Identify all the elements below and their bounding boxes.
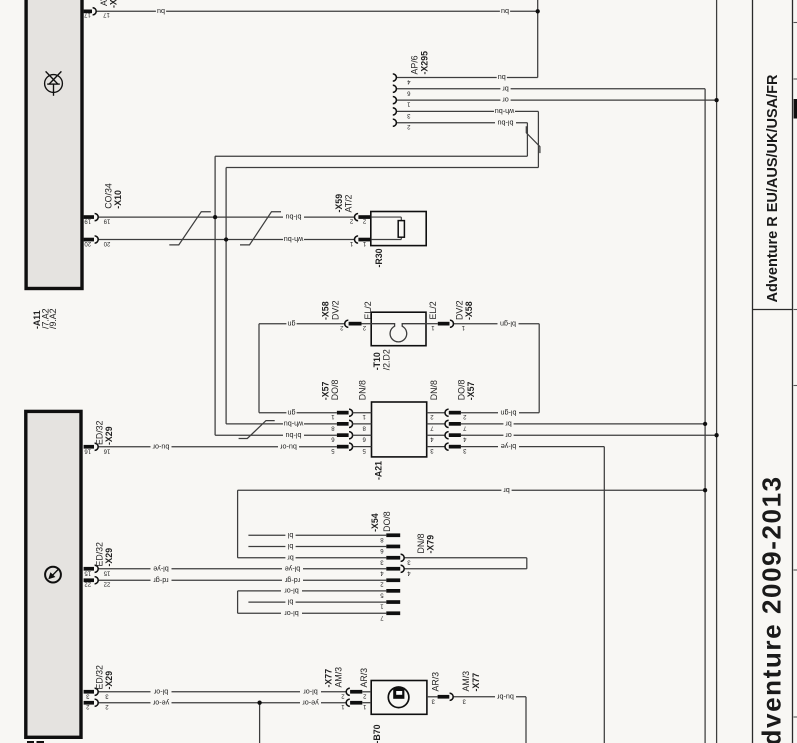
svg-text:br: br bbox=[502, 84, 509, 93]
svg-text:-X29: -X29 bbox=[104, 426, 114, 445]
svg-text:-R30: -R30 bbox=[374, 248, 384, 267]
svg-text:gn: gn bbox=[288, 408, 296, 417]
svg-text:bl-gn: bl-gn bbox=[500, 319, 516, 328]
svg-text:bu: bu bbox=[157, 7, 165, 16]
svg-text:AV/18: AV/18 bbox=[99, 0, 109, 6]
svg-text:16: 16 bbox=[84, 447, 91, 453]
svg-text:AP/6: AP/6 bbox=[409, 55, 419, 74]
svg-text:ED/32: ED/32 bbox=[95, 542, 105, 567]
svg-text:bu-or: bu-or bbox=[152, 442, 169, 451]
svg-text:-X77: -X77 bbox=[324, 669, 334, 688]
svg-text:bl-or: bl-or bbox=[284, 587, 299, 596]
svg-text:-X54: -X54 bbox=[370, 513, 380, 532]
svg-text:or: or bbox=[502, 96, 509, 105]
svg-text:DV/2: DV/2 bbox=[455, 300, 465, 320]
svg-text:bl-ye: bl-ye bbox=[153, 564, 169, 573]
svg-text:-X59: -X59 bbox=[334, 194, 344, 213]
svg-text:br: br bbox=[505, 420, 512, 429]
svg-text:-X295: -X295 bbox=[419, 51, 429, 75]
svg-text:AT/2: AT/2 bbox=[344, 194, 354, 212]
svg-text:-A21: -A21 bbox=[374, 461, 384, 480]
svg-text:DO/8: DO/8 bbox=[456, 380, 466, 401]
svg-text:22: 22 bbox=[103, 581, 110, 587]
svg-text:-X57: -X57 bbox=[466, 382, 476, 401]
svg-text:bu-or: bu-or bbox=[280, 442, 297, 451]
svg-text:15: 15 bbox=[103, 569, 110, 575]
svg-text:bl: bl bbox=[287, 542, 293, 551]
svg-text:bl-bu: bl-bu bbox=[286, 431, 302, 440]
svg-text:19: 19 bbox=[103, 218, 110, 224]
svg-text:bu: bu bbox=[498, 73, 506, 82]
svg-text:bl-ye: bl-ye bbox=[285, 564, 301, 573]
svg-text:/9.A2: /9.A2 bbox=[48, 308, 58, 329]
svg-text:16: 16 bbox=[103, 447, 110, 453]
svg-text:wh-bu: wh-bu bbox=[495, 107, 516, 116]
svg-text:EL/2: EL/2 bbox=[428, 301, 438, 319]
svg-text:-X57: -X57 bbox=[320, 382, 330, 401]
svg-text:rd-gr: rd-gr bbox=[153, 576, 169, 585]
svg-text:br: br bbox=[287, 553, 294, 562]
svg-text:ye-or: ye-or bbox=[302, 698, 319, 707]
svg-text:bl-bu: bl-bu bbox=[286, 213, 302, 222]
svg-text:br: br bbox=[503, 486, 510, 495]
svg-text:-B70: -B70 bbox=[372, 724, 382, 743]
svg-text:-T10: -T10 bbox=[372, 352, 382, 370]
svg-text:DV/2: DV/2 bbox=[330, 300, 340, 320]
svg-text:DO/8: DO/8 bbox=[330, 380, 340, 401]
svg-text:bu: bu bbox=[501, 7, 509, 16]
svg-text:-X79: -X79 bbox=[426, 535, 436, 554]
svg-text:bl-or: bl-or bbox=[284, 609, 299, 618]
svg-text:20: 20 bbox=[84, 240, 91, 246]
svg-text:AM/3: AM/3 bbox=[333, 667, 343, 688]
svg-text:ED/32: ED/32 bbox=[95, 665, 105, 690]
svg-text:-X58: -X58 bbox=[321, 301, 331, 320]
svg-text:bl-or: bl-or bbox=[153, 687, 168, 696]
svg-text:-X13: -X13 bbox=[109, 0, 119, 8]
svg-text:bu-br: bu-br bbox=[497, 692, 514, 701]
svg-text:wh-bu: wh-bu bbox=[284, 235, 305, 244]
svg-text:-X29: -X29 bbox=[104, 548, 114, 567]
svg-text:gn: gn bbox=[288, 319, 296, 328]
svg-text:wh-bu: wh-bu bbox=[284, 420, 305, 429]
svg-text:bl-or: bl-or bbox=[303, 687, 318, 696]
svg-text:or: or bbox=[505, 431, 512, 440]
svg-text:bl-ye: bl-ye bbox=[501, 442, 517, 451]
svg-text:DO/8: DO/8 bbox=[382, 511, 392, 532]
svg-text:19: 19 bbox=[84, 218, 91, 224]
svg-text:/2.D2: /2.D2 bbox=[382, 349, 392, 370]
svg-text:AR/3: AR/3 bbox=[430, 672, 440, 692]
svg-text:rd-gr: rd-gr bbox=[284, 576, 300, 585]
svg-text:-X10: -X10 bbox=[113, 190, 123, 209]
svg-text:17: 17 bbox=[103, 11, 110, 17]
svg-text:17: 17 bbox=[84, 11, 91, 17]
svg-text:EL/2: EL/2 bbox=[363, 301, 373, 319]
svg-text:DN/8: DN/8 bbox=[357, 380, 367, 400]
svg-text:22: 22 bbox=[84, 581, 91, 587]
svg-text:-X29: -X29 bbox=[104, 671, 114, 690]
svg-text:bl-bu: bl-bu bbox=[498, 118, 514, 127]
svg-text:ED/32: ED/32 bbox=[95, 420, 105, 445]
svg-text:bl: bl bbox=[287, 598, 293, 607]
svg-text:-X77: -X77 bbox=[471, 673, 481, 692]
svg-text:CO/34: CO/34 bbox=[103, 183, 113, 209]
svg-text:AM/3: AM/3 bbox=[461, 671, 471, 692]
svg-text:20: 20 bbox=[103, 240, 110, 246]
svg-text:AR/3: AR/3 bbox=[359, 668, 369, 688]
svg-text:DN/8: DN/8 bbox=[429, 380, 439, 400]
svg-text:bl-gn: bl-gn bbox=[501, 408, 517, 417]
svg-text:-X58: -X58 bbox=[464, 301, 474, 320]
svg-text:KTM 990 Adventure 2009-2013: KTM 990 Adventure 2009-2013 bbox=[757, 475, 787, 743]
svg-text:Adventure R EU/AUS/UK/USA/FR: Adventure R EU/AUS/UK/USA/FR bbox=[765, 74, 781, 303]
svg-text:bl: bl bbox=[287, 531, 293, 540]
svg-text:15: 15 bbox=[84, 569, 91, 575]
svg-text:ye-or: ye-or bbox=[152, 698, 169, 707]
svg-text:DN/8: DN/8 bbox=[416, 533, 426, 553]
